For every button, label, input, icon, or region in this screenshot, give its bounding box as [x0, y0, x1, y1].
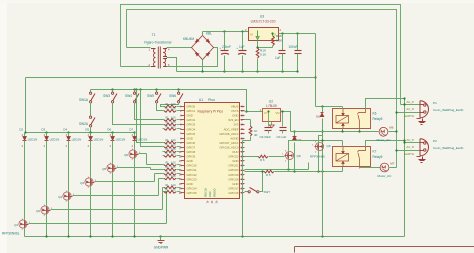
transistor Q9 RFP30N06 [316, 142, 324, 150]
svg-text:U3: U3 [260, 15, 264, 19]
svg-text:0.1K: 0.1K [171, 109, 176, 111]
svg-text:0.1K: 0.1K [260, 53, 267, 57]
svg-text:EARTH: EARTH [404, 152, 414, 156]
wire source to ground rail [46, 215, 48, 237]
svg-text:0.1K: 0.1K [171, 176, 176, 178]
switch SW2A [90, 103, 92, 117]
svg-text:GPIO0: GPIO0 [187, 105, 196, 109]
wire secondary center tap to PSU ground rail [167, 58, 177, 72]
wire relay supply to coil K6 [316, 106, 343, 108]
motor M6 Motor_AC [379, 127, 388, 136]
LED D4 [68, 133, 70, 137]
wire relay2 contact top to AC_P [366, 141, 405, 145]
svg-text:AC_P: AC_P [406, 100, 414, 104]
svg-text:KBU4M: KBU4M [183, 37, 194, 41]
svg-text:AC_P: AC_P [406, 138, 414, 142]
transistor Q4 RFP30N06L [85, 178, 93, 186]
svg-text:K7: K7 [373, 150, 377, 154]
wire transformer primary top [127, 47, 151, 49]
svg-text:LED1N: LED1N [28, 138, 38, 142]
capacitor C3 1uF on 3V3 [282, 34, 284, 51]
wire gate Q1 to Pico [29, 223, 167, 225]
svg-text:0.1K: 0.1K [171, 167, 176, 169]
svg-text:Q9: Q9 [327, 144, 331, 148]
svg-text:U1: U1 [199, 98, 204, 102]
svg-text:GPIO15: GPIO15 [187, 191, 198, 195]
capacitor C2 1uF [242, 32, 244, 51]
wire Q8 drain up [289, 141, 343, 151]
svg-text:R18: R18 [276, 34, 282, 38]
switch SW7 [245, 191, 249, 193]
svg-text:LED1N: LED1N [116, 138, 126, 142]
capacitor C10 0.1uF [282, 112, 284, 127]
wire AC_P loop (outer rectangle from plug to transformer primary) [121, 5, 401, 105]
wire secondary top to bridge AC1 [167, 47, 192, 49]
resistor network R1-R13 0.1K into Pico GPIO pins [163, 104, 181, 193]
wire gate Q2 to Pico [51, 209, 163, 211]
svg-text:M7: M7 [390, 161, 394, 165]
svg-text:3V3: 3V3 [234, 123, 239, 127]
wire LED supply corner into column 1 [25, 78, 27, 133]
svg-text:D3: D3 [41, 128, 45, 132]
relay K7 Relay5 [333, 147, 371, 167]
svg-text:Q1: Q1 [14, 223, 18, 227]
svg-text:RUN: RUN [232, 150, 238, 154]
svg-text:SW4: SW4 [125, 94, 132, 98]
svg-text:Q8: Q8 [297, 154, 301, 158]
svg-text:LED1N: LED1N [94, 138, 104, 142]
svg-text:0.1K: 0.1K [171, 185, 176, 187]
svg-text:Relay5: Relay5 [373, 155, 383, 159]
wire source to ground rail [112, 173, 114, 237]
capacitor C4 100nF on 3V3 [297, 34, 299, 51]
svg-text:GNDPWR: GNDPWR [154, 246, 169, 250]
LED D7 [134, 133, 136, 137]
svg-text:LM317LT-33-220: LM317LT-33-220 [251, 20, 276, 24]
svg-text:Q2: Q2 [36, 209, 40, 213]
transistor Q6 RFP30N06L [129, 150, 137, 158]
svg-text:SW5: SW5 [147, 94, 154, 98]
wire motor1 to AC_N [389, 131, 397, 133]
switch SW4 [134, 90, 136, 93]
svg-text:Motor_AC: Motor_AC [377, 138, 392, 142]
wire AC_P vertical to plugs [404, 99, 406, 237]
svg-text:VSYS: VSYS [231, 109, 239, 113]
svg-text:Figaro-Transformer: Figaro-Transformer [144, 41, 172, 45]
svg-text:GPIO8: GPIO8 [187, 150, 196, 154]
motor M7 Motor_AC [380, 163, 389, 172]
wire Q9 drain jog [319, 136, 323, 142]
wire PSU ground rail [177, 71, 298, 73]
svg-text:GND: GND [208, 191, 212, 197]
wire relay2 contact bottom to motor2 [359, 167, 361, 168]
wire plug2 AC_N stub [397, 150, 421, 152]
switch SW3 [112, 90, 114, 93]
wire SW3 to R input GPIO3 [113, 103, 163, 125]
wire Q8 source down [288, 161, 290, 170]
wire SW6 to R input GPIO0 [161, 103, 179, 107]
resistor R19 0.1K (ADJ to ground) [256, 48, 259, 58]
svg-text:C9.33uF: C9.33uF [260, 135, 272, 139]
resistor R5 1K to relay2 coil [245, 171, 265, 173]
svg-text:Q4: Q4 [80, 181, 84, 185]
svg-text:R 5: R 5 [266, 173, 271, 177]
svg-text:GPIO9: GPIO9 [187, 155, 196, 159]
wire feeder GPIO8 [146, 154, 148, 165]
wire ground rail GNDPWR bottom [25, 236, 405, 238]
bridge rectifier KBL KBU4M [192, 35, 214, 59]
regulator U2 L78L05 [263, 109, 281, 122]
svg-text:2.2mF: 2.2mF [222, 45, 231, 49]
svg-text:0.1K: 0.1K [171, 145, 176, 147]
wire source to ground rail [134, 159, 136, 237]
svg-text:1uF: 1uF [239, 45, 245, 49]
svg-text:GPIO7: GPIO7 [187, 145, 196, 149]
sheet frame border bottom [295, 246, 474, 248]
wire source to ground rail [68, 201, 70, 237]
earth symbol P2 [422, 157, 424, 160]
svg-text:0.1K: 0.1K [171, 154, 176, 156]
svg-text:Conn_WallPlug_Earth: Conn_WallPlug_Earth [433, 108, 464, 112]
wire U3 ADJ node [257, 41, 259, 48]
wire gate Q6 to Pico [139, 153, 147, 155]
relay K6 Relay5 [333, 109, 371, 129]
wire switch top rail (VSYS) [91, 90, 247, 112]
LED D5 [90, 133, 92, 137]
svg-text:GPIO27_ADC1: GPIO27_ADC1 [219, 141, 239, 145]
mcu U1 Raspberry Pi Pico [185, 103, 240, 199]
wire 3V3 rail from U3 VO [279, 33, 316, 35]
wire feeder to R GPIO6 [137, 90, 163, 143]
svg-text:GPIO3: GPIO3 [187, 123, 196, 127]
regulator U3 LM317LT-33-220 [249, 28, 279, 41]
svg-text:T1: T1 [152, 33, 156, 37]
diode D6 flyback relay1 [320, 113, 324, 117]
svg-text:GPIO28_ADC2: GPIO28_ADC2 [219, 132, 239, 136]
ground arrow inside U3 [257, 31, 259, 38]
svg-text:Motor_AC: Motor_AC [378, 174, 393, 178]
wire AC_N loop (inner rectangle) [127, 10, 397, 168]
wire feeder GPIO9 stub [150, 168, 152, 170]
earth symbol P1 [422, 119, 424, 122]
wire plug1 AC_N stub [397, 112, 421, 114]
svg-text:0.1K: 0.1K [171, 190, 176, 192]
LED D6 [112, 133, 114, 137]
power symbol GNDPWR [160, 237, 162, 241]
wire plug1 AC_P stub [401, 104, 421, 106]
wire transformer primary bottom [121, 66, 151, 68]
wire relay1 coil bottom [342, 129, 344, 132]
svg-text:VBUS: VBUS [231, 105, 239, 109]
wire relay2 coil bottom to R5 line [342, 167, 344, 172]
svg-text:AGND: AGND [230, 136, 238, 140]
capacitor C1 2.2mF [224, 32, 226, 51]
svg-text:0.1K: 0.1K [171, 149, 176, 151]
transistor Q8 RFP30N06 [286, 151, 294, 159]
svg-text:VI: VI [250, 33, 253, 37]
svg-text:SW6: SW6 [169, 94, 176, 98]
svg-text:Conn_WallPlug_Earth: Conn_WallPlug_Earth [433, 146, 464, 150]
svg-text:GPIO4: GPIO4 [187, 127, 196, 131]
svg-text:VI: VI [264, 111, 267, 115]
transistor Q2 RFP30N06L [41, 206, 49, 214]
svg-text:Raspberry Pi Pico: Raspberry Pi Pico [198, 109, 224, 113]
svg-text:GPIO5: GPIO5 [187, 132, 196, 136]
svg-text:D4: D4 [63, 128, 67, 132]
svg-text:1K: 1K [254, 129, 257, 133]
switch SW6 [178, 90, 180, 93]
svg-text:GPIO26_ADC0: GPIO26_ADC0 [219, 145, 239, 149]
svg-text:SW3: SW3 [103, 94, 110, 98]
svg-text:D6: D6 [316, 115, 320, 119]
wire source to ground rail [90, 187, 92, 237]
svg-text:GPIO21: GPIO21 [228, 164, 239, 168]
svg-text:D7: D7 [129, 128, 133, 132]
svg-text:D5: D5 [85, 128, 89, 132]
wire secondary bottom to bridge AC2 [167, 48, 218, 67]
connector P2 Conn_WallPlug_Earth [420, 139, 429, 156]
wire PSU V+ rail (bridge to U3 VI) [203, 31, 249, 33]
wire SW2A to LED rail [90, 127, 92, 133]
svg-text:0.1K: 0.1K [171, 122, 176, 124]
wire relay2 coil top from Q8 drain line [342, 141, 344, 145]
wire gate Q3 to Pico [73, 195, 159, 197]
transistor Q3 RFP30N06L [63, 192, 71, 200]
wire relay drop column x322 [322, 107, 324, 113]
svg-text:Q3: Q3 [58, 195, 62, 199]
svg-text:P1: P1 [433, 101, 437, 105]
svg-text:0.1K: 0.1K [171, 127, 176, 129]
transistor Q1 RFP30N06L [19, 220, 27, 228]
svg-text:GPIO14: GPIO14 [187, 186, 198, 190]
svg-text:RFP30N06L: RFP30N06L [2, 232, 20, 236]
svg-text:GPIO2: GPIO2 [187, 118, 196, 122]
svg-text:D6: D6 [107, 128, 111, 132]
svg-text:GND: GND [232, 182, 238, 186]
svg-text:P2: P2 [433, 139, 437, 143]
svg-text:100nF: 100nF [289, 45, 298, 49]
wire VSYS to U2 VI [247, 111, 263, 113]
svg-text:GPIO11: GPIO11 [187, 168, 197, 172]
wire gate Q5 to Pico [117, 167, 151, 169]
wire motor2 to AC_N [390, 167, 397, 169]
svg-text:0.1K: 0.1K [171, 163, 176, 165]
svg-text:GPIO10: GPIO10 [187, 164, 198, 168]
resistor R6 1K to Q8 gate [245, 156, 259, 158]
wire LED indicator rail [25, 132, 135, 134]
wire bridge plus to PSU V+ rail [202, 32, 204, 36]
pico left pin names and numbers [179, 105, 197, 195]
wire LED supply rail horizontal [26, 77, 316, 79]
transistor Q5 RFP30N06L [107, 164, 115, 172]
wire source to ground rail [24, 229, 26, 237]
LED D2 [24, 133, 26, 137]
svg-text:GPIO13: GPIO13 [187, 177, 198, 181]
wire feeder to R GPIO7 [141, 90, 163, 147]
svg-text:GPIO12: GPIO12 [187, 173, 198, 177]
svg-text:L78L05: L78L05 [266, 104, 277, 108]
svg-text:0.1K: 0.1K [171, 104, 176, 106]
ground symbol under U2 [271, 122, 273, 125]
svg-text:AC_N: AC_N [406, 145, 414, 149]
wire U2 VO to relay drop [281, 112, 291, 132]
svg-text:ADC_VREF: ADC_VREF [224, 127, 239, 131]
resistor R18 0.2K (VO to ADJ) [272, 34, 274, 37]
wire SW7 to R5 line [259, 172, 263, 192]
svg-text:GND: GND [232, 159, 238, 163]
wire GPIO20 row to Q8 source [245, 169, 309, 171]
wire gate Q4 to Pico [95, 181, 155, 183]
svg-text:GPIO20: GPIO20 [228, 168, 239, 172]
capacitor C9 0.33uF [268, 112, 270, 127]
wire R16 to ground rail [242, 141, 244, 237]
svg-text:Pico: Pico [208, 98, 215, 102]
svg-text:R 6: R 6 [260, 158, 265, 162]
svg-text:GND: GND [187, 136, 193, 140]
svg-text:Q5: Q5 [102, 167, 106, 171]
svg-text:GPIO22: GPIO22 [228, 155, 239, 159]
svg-text:1uF: 1uF [275, 56, 281, 60]
svg-text:KBL: KBL [206, 32, 212, 36]
wire SW4 to R input GPIO2 [135, 103, 163, 120]
pico right pin names and numbers [219, 105, 244, 195]
svg-text:GPIO6: GPIO6 [187, 141, 196, 145]
svg-text:RFP30N06: RFP30N06 [310, 155, 325, 159]
svg-text:SW2A: SW2A [79, 122, 89, 126]
svg-text:GPIO18: GPIO18 [228, 177, 239, 181]
svg-text:M6: M6 [389, 126, 393, 130]
svg-text:D2: D2 [19, 128, 23, 132]
connector P1 Conn_WallPlug_Earth [420, 101, 429, 118]
svg-text:GPIO16: GPIO16 [228, 191, 239, 195]
wire plug2 AC_P stub [405, 142, 421, 144]
diode D7 flyback relay2 [294, 132, 296, 137]
resistor R17 1K on 3V3_EN pin [245, 119, 251, 121]
wire SW5 to R input GPIO1 [157, 103, 163, 111]
wire Q9 source down [318, 152, 320, 172]
wire 3V3 feed down right side [315, 34, 317, 107]
svg-text:C0.1uF: C0.1uF [277, 135, 287, 139]
svg-text:SW7: SW7 [264, 190, 271, 194]
svg-text:U2: U2 [269, 100, 273, 104]
svg-text:GPIO1: GPIO1 [187, 109, 196, 113]
svg-text:LED1N: LED1N [72, 138, 82, 142]
svg-text:GND: GND [187, 114, 193, 118]
svg-text:SW1A: SW1A [79, 98, 89, 102]
svg-text:AC_N: AC_N [406, 107, 414, 111]
svg-text:GPIO19: GPIO19 [228, 173, 239, 177]
transformer T1 Figaro-Transformer [151, 47, 167, 69]
svg-text:4R: 4R [254, 133, 257, 137]
svg-text:0.1K: 0.1K [171, 118, 176, 120]
svg-text:GND: GND [187, 159, 193, 163]
LED D3 [46, 133, 48, 137]
svg-text:GND: GND [187, 182, 193, 186]
wire relay1 bottom rail to motor1 [291, 131, 379, 133]
pico bottom debug pins SWCLK GND SWDIO [204, 188, 219, 204]
switch SW1A [90, 90, 92, 93]
svg-text:LED1N: LED1N [50, 138, 60, 142]
svg-text:SWCLK: SWCLK [204, 188, 208, 197]
svg-text:K6: K6 [373, 112, 377, 116]
wire bridge minus down to PSU ground rail [202, 60, 204, 72]
svg-text:Relay5: Relay5 [373, 117, 383, 121]
svg-text:0.1K: 0.1K [171, 172, 176, 174]
svg-text:0.1K: 0.1K [171, 140, 176, 142]
svg-text:SWDIO: SWDIO [213, 188, 217, 197]
svg-text:EARTH: EARTH [404, 114, 414, 118]
wire relay1 contact top to AC_P [366, 99, 405, 107]
svg-text:LED1N: LED1N [138, 138, 148, 142]
svg-text:GPIO17: GPIO17 [228, 186, 239, 190]
svg-text:Q6: Q6 [124, 153, 128, 157]
switch SW5 [156, 90, 158, 93]
svg-text:GND: GND [232, 114, 238, 118]
svg-text:3V3_EN: 3V3_EN [228, 118, 238, 122]
